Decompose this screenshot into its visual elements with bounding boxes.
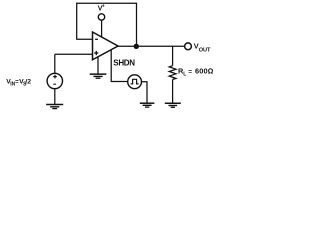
ground (VIN source) [46, 105, 63, 109]
wire non-inverting input [55, 53, 93, 55]
svg-text:/2: /2 [25, 79, 31, 86]
svg-text:600Ω: 600Ω [195, 67, 214, 76]
wire SHDN pin to pulse source [111, 50, 127, 82]
ground (RL) [165, 103, 181, 107]
svg-text:+: + [102, 3, 105, 9]
wire RL bottom [172, 80, 174, 103]
V+ terminal [98, 3, 105, 20]
wire pulse source to ground [141, 82, 147, 103]
svg-text:SHDN: SHDN [113, 58, 135, 67]
svg-text:=: = [188, 68, 192, 75]
op-amp U1 [93, 32, 119, 60]
wire V- pin to ground [97, 57, 99, 74]
resistor label RL = 600 ohm [178, 67, 214, 78]
wire V+ stem [101, 20, 103, 38]
resistor RL [169, 66, 176, 80]
svg-text:OUT: OUT [199, 47, 211, 53]
wire VIN source top stem [54, 54, 56, 73]
ground (op-amp V- pin) [90, 74, 107, 78]
svg-text:L: L [183, 72, 186, 78]
pulse source V2 [128, 75, 142, 89]
ground (pulse source) [140, 103, 155, 107]
voltage source V1 VIN [47, 73, 62, 88]
junction output node [134, 44, 139, 49]
wire RL top [172, 46, 174, 65]
label VIN = VS/2 [6, 78, 31, 87]
wire feedback loop [77, 3, 137, 44]
VOUT terminal [185, 42, 211, 54]
wire inverting input [76, 38, 92, 40]
wire output [118, 45, 184, 47]
wire VIN source bottom stem [54, 89, 56, 104]
